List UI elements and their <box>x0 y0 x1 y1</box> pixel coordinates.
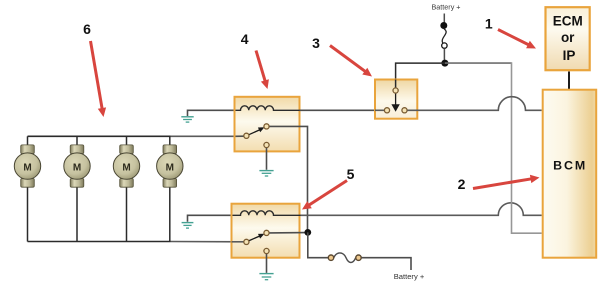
svg-text:M: M <box>166 162 174 173</box>
svg-text:or: or <box>561 30 575 45</box>
switch S1 right contact <box>402 108 407 113</box>
relay K2 switch arm <box>249 234 265 241</box>
wire: relay K1 coil left lead to ground <box>188 110 241 116</box>
relay K1 switch arm <box>249 127 265 135</box>
wire: bottom bus to relay K2 common <box>171 241 244 243</box>
wire: breaker to junction <box>443 48 445 60</box>
callout arrow 5 <box>302 181 347 210</box>
callout arrow 6 <box>91 41 107 117</box>
callout arrow 2 <box>473 175 540 189</box>
circuit breaker CB1 wavy element <box>442 29 446 45</box>
svg-text:ECM: ECM <box>553 14 583 29</box>
motor M2 <box>64 145 90 187</box>
junction node B (battery bus) <box>441 60 448 67</box>
wire: motor1 bottom stub <box>27 185 29 242</box>
ground G2 (relay K1 NC) <box>259 171 273 176</box>
motor M3 <box>113 145 139 187</box>
wire: relay K2 coil to BCM <box>301 203 542 216</box>
relay K2 common contact <box>244 239 249 244</box>
wire: motor2 top stub <box>76 136 78 146</box>
switch S1 (callout 3) box <box>375 80 417 119</box>
junction node A (battery feed) <box>304 229 311 236</box>
svg-text:1: 1 <box>485 15 493 31</box>
wire: battery bus to switch S1 <box>396 63 445 88</box>
relay K1 common contact <box>244 133 249 138</box>
ground G1 (relay K1 coil) <box>181 117 193 122</box>
svg-text:IP: IP <box>563 48 576 63</box>
callout arrow 3 <box>330 46 372 77</box>
svg-text:Battery +: Battery + <box>394 272 425 281</box>
relay K1 NC contact <box>264 142 269 147</box>
wire: relay K1 NO to battery feed (down to junction) <box>270 126 308 229</box>
wire: junction to lower fuse and battery <box>308 232 328 257</box>
wire: motor3 top stub <box>126 136 128 146</box>
wire: battery feed vertical to BCM <box>512 62 542 233</box>
fuse F2 wavy element <box>334 253 356 263</box>
BCM module (callout 2) <box>543 90 597 258</box>
wire: motor top bus <box>28 135 171 137</box>
wire: ECM to BCM <box>568 72 570 90</box>
wire: relay K2 NO to junction <box>270 232 307 234</box>
wire: switch S1 top contact inner lead <box>395 80 397 88</box>
wire: switch S1 left contact inner lead <box>375 109 384 111</box>
relay K1 coil <box>236 106 300 110</box>
svg-text:Battery +: Battery + <box>432 3 461 12</box>
wire: motor bottom bus to relay5 common <box>28 241 171 243</box>
svg-text:3: 3 <box>312 35 320 51</box>
relay K1 NO contact <box>264 124 269 129</box>
wire: relay K1 coil to switch S1 <box>300 109 385 111</box>
wire: battery bus to BCM feed <box>445 62 512 64</box>
svg-text:BCM: BCM <box>553 159 587 173</box>
svg-text:M: M <box>122 162 130 173</box>
callout arrow 4 <box>256 51 269 90</box>
wire: motor4 bottom stub <box>169 185 171 242</box>
wire: relay K2 coil left lead to ground <box>188 215 241 222</box>
fuse F2 left terminal <box>328 255 333 260</box>
switch S1 left contact <box>384 108 389 113</box>
switch S1 top contact <box>393 88 398 93</box>
wire: relay K2 common inner lead <box>232 241 244 243</box>
switch S1 moving contact arrow <box>391 94 399 112</box>
wire: switch S1 to BCM <box>408 97 542 111</box>
wire: motor2 bottom stub <box>76 185 78 242</box>
relay K2 (callout 5) box <box>232 204 300 258</box>
relay K2 NC contact <box>264 248 269 253</box>
wire: relay K2 NC to ground <box>266 254 268 273</box>
relay K2 coil <box>233 211 301 215</box>
ground G3 (relay K2 coil) <box>182 223 194 229</box>
wire: motor1 top stub <box>27 136 29 146</box>
ground G4 (relay K2 NC) <box>259 274 273 280</box>
relay K2 NO contact <box>264 230 269 235</box>
fuse F2 right terminal <box>356 255 361 260</box>
motor M4 <box>157 145 183 187</box>
wire: relay K1 NC to ground <box>266 148 268 170</box>
svg-text:2: 2 <box>458 176 466 192</box>
callout arrow 1 <box>498 30 536 49</box>
svg-text:M: M <box>73 162 81 173</box>
circuit breaker CB1 bottom terminal <box>442 43 447 48</box>
svg-text:4: 4 <box>241 31 249 47</box>
wire: motor3 bottom stub <box>126 185 128 242</box>
svg-text:M: M <box>23 162 31 173</box>
wire: fuse F2 to battery <box>362 258 412 270</box>
wire: battery top lead <box>443 14 445 25</box>
wire: motor4 top stub <box>169 136 171 146</box>
relay K1 (callout 4) box <box>235 97 300 152</box>
circuit breaker CB1 top terminal <box>440 22 447 29</box>
svg-text:6: 6 <box>83 21 91 37</box>
ECM or IP module (callout 1) <box>546 7 590 70</box>
motor M1 <box>14 145 40 187</box>
wire: top bus to relay K1 common <box>171 135 244 137</box>
wire: relay K1 common from bus <box>236 135 244 137</box>
svg-text:5: 5 <box>347 166 355 182</box>
